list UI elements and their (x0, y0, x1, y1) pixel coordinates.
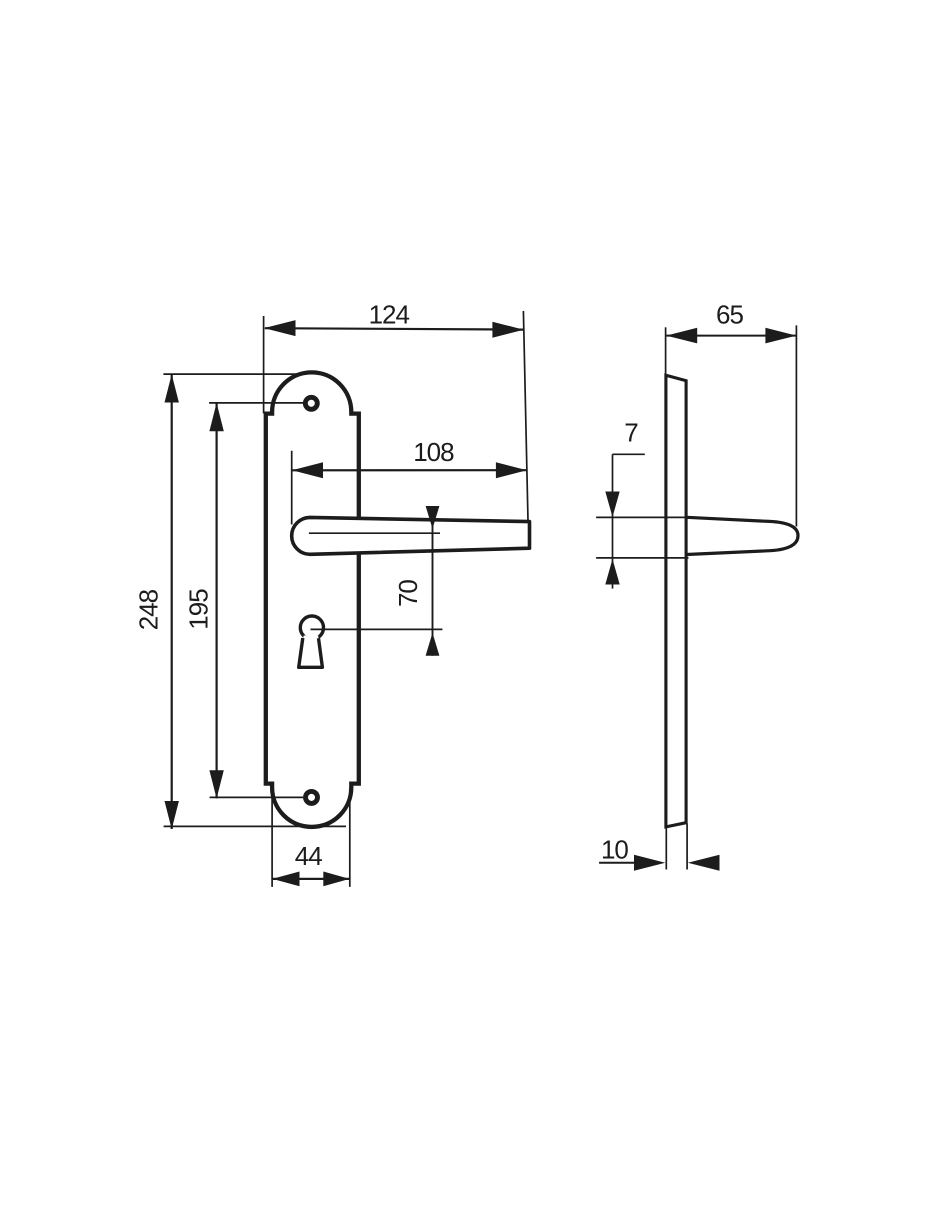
dim 10 extension line left (665, 828, 667, 870)
dim 248 text (rotated) (133, 589, 163, 630)
dim 10 tail line (599, 862, 634, 864)
dim 70 arrow bottom (up) (426, 633, 440, 656)
dim 195 line (216, 403, 218, 798)
dim 10 arrow right (pointing left) (688, 855, 720, 871)
dim 7 extension line top (596, 516, 688, 518)
svg-text:10: 10 (601, 835, 628, 865)
dim 248 extension line bottom (164, 825, 346, 827)
dim 195 text (rotated) (184, 589, 214, 630)
dim 65 arrow left (666, 328, 697, 344)
dim 10 text (601, 835, 628, 865)
svg-text:195: 195 (184, 589, 214, 630)
handle (front view) (292, 517, 530, 554)
dim 248 arrow bottom (165, 801, 179, 829)
keyhole centerline extension (311, 628, 443, 630)
handle centerline (front) (309, 532, 440, 534)
bottom screw hole (306, 791, 318, 803)
keyhole (299, 616, 324, 667)
side view plate profile (666, 375, 686, 827)
svg-text:70: 70 (393, 580, 423, 607)
dim 65 extension line left (665, 327, 667, 375)
dim 195 arrow top (209, 403, 223, 431)
dim 70 line (432, 506, 434, 656)
dim 108 line (292, 469, 527, 471)
dim 124 line (265, 328, 523, 329)
svg-text:7: 7 (624, 418, 638, 448)
dim 7 arrow down (605, 492, 619, 518)
dim 65 line (667, 335, 797, 337)
dim 248 line (171, 374, 173, 829)
dim 44 text (295, 841, 322, 871)
dim 248 arrow top (165, 374, 179, 402)
dim 124 arrow right (492, 322, 523, 338)
dim 7 arrow up (605, 559, 619, 585)
svg-text:124: 124 (369, 300, 410, 330)
svg-text:108: 108 (413, 437, 454, 467)
dim 10 extension line right (686, 824, 688, 870)
top screw hole (305, 397, 317, 409)
dim 44 line (272, 878, 350, 880)
backplate outline (front view) (266, 372, 359, 827)
dim 7 top tick (613, 453, 645, 455)
dim 70 arrow top (down) (426, 506, 440, 529)
dim 44 arrow right (323, 872, 349, 887)
dim 44 extension line right (349, 789, 351, 887)
dim 65 text (716, 299, 743, 329)
dim 108 arrow right (496, 462, 527, 478)
dim 124 text (369, 300, 410, 330)
dim 195 extension line top (209, 402, 303, 404)
dim 70 text (rotated) (393, 580, 423, 607)
dim 7 vertical line (612, 454, 614, 588)
dim 10 arrow left (pointing right) (634, 855, 665, 871)
dim 195 arrow bottom (209, 770, 223, 798)
dim 7 text (624, 418, 638, 448)
dim 108 arrow left (292, 462, 323, 478)
dim 248 extension line top (163, 373, 298, 375)
dim 124 extension line left (263, 316, 265, 413)
dim 7 extension line bottom (596, 557, 688, 559)
side view handle (687, 517, 799, 554)
dim 124 arrow left (264, 320, 296, 336)
dim 195 extension line bottom (210, 796, 304, 798)
dim 44 arrow left (272, 872, 299, 887)
svg-text:44: 44 (295, 841, 322, 871)
dim 124/108 shared extension line right (tilted) (523, 311, 528, 521)
dim 108 text (413, 437, 454, 467)
svg-text:65: 65 (716, 299, 743, 329)
dim 44 extension line left (271, 789, 273, 887)
svg-text:248: 248 (133, 589, 163, 630)
dim 65 arrow right (765, 328, 796, 344)
dim 108 extension line left (291, 451, 293, 525)
dim 65 extension line right (795, 325, 797, 526)
